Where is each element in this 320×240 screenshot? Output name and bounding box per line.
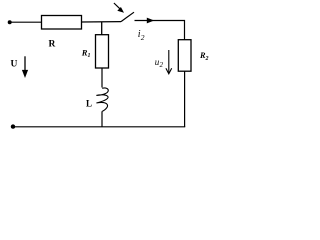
inductor L (coil) (96, 88, 108, 111)
svg-text:R: R (49, 40, 56, 50)
wire: resistor R to switch left contact (82, 21, 122, 23)
voltage arrow u2 (downward, open head) (168, 50, 170, 74)
svg-text:L: L (86, 98, 92, 108)
resistor R (series, horizontal) (42, 16, 82, 30)
wire: R2 to bottom rail (184, 71, 186, 127)
svg-text:R1: R1 (81, 48, 91, 60)
node: bottom-left input terminal (11, 124, 15, 128)
resistor R1 (shunt, vertical) (96, 35, 109, 68)
svg-text:R2: R2 (199, 51, 209, 62)
voltage arrow U (downward, filled head) (24, 56, 26, 71)
node: top-left input terminal (8, 20, 12, 24)
wire: top-left terminal to resistor R (10, 21, 42, 23)
svg-text:i2: i2 (138, 29, 145, 42)
wire: switch right contact to top-right corner, with corner down to R2 (135, 21, 185, 40)
switch S (open blade) (121, 12, 134, 21)
current arrow i2 (arrowhead on wire) (147, 18, 154, 24)
svg-text:U: U (11, 60, 18, 70)
wire: junction drop to resistor R1 (101, 22, 103, 35)
wire: bottom rail (13, 126, 185, 128)
wire: resistor R1 to inductor L (101, 68, 103, 88)
wire: inductor L to bottom rail (101, 111, 103, 127)
switch closing arrow (114, 3, 121, 9)
svg-text:u2: u2 (155, 57, 164, 69)
resistor R2 (load, vertical) (178, 40, 191, 71)
